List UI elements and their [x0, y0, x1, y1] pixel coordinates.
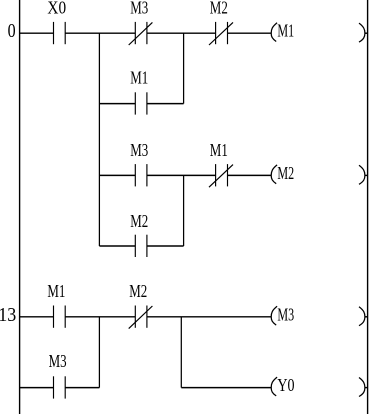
wire branch M2: left junction to contact: [99, 245, 135, 247]
right power rail: [367, 0, 369, 414]
svg-text:M2: M2: [277, 164, 294, 184]
svg-text:X0: X0: [47, 0, 66, 18]
svg-text:M3: M3: [49, 352, 67, 372]
svg-text:M1: M1: [277, 21, 294, 41]
svg-text:M2: M2: [210, 0, 228, 18]
wire rung13: M1 to contact M2: [65, 316, 135, 318]
wire branch M2: contact to right junction: [147, 245, 184, 247]
svg-text:Y0: Y0: [277, 377, 294, 396]
coil Y0 right parenthesis: [359, 378, 365, 397]
coil M1 left parenthesis: [271, 23, 277, 42]
wire branch M3: left rail to contact: [20, 387, 54, 389]
contact M2 (normally closed): [209, 22, 233, 45]
wire coil M1 stub to right rail: [365, 32, 368, 34]
wire rung0: M3 to contact M2: [147, 32, 216, 34]
junction: rung0 branch left vertical: [98, 33, 100, 246]
coil Y0 left parenthesis: [271, 377, 277, 396]
svg-text:13: 13: [0, 304, 16, 326]
wire rung0: X0 to contact M3: [65, 32, 135, 34]
junction: rung13 branch left vertical: [98, 317, 100, 388]
contact X0 (normally open): [54, 22, 66, 44]
contact M3 (rung1) (normally open): [135, 164, 147, 186]
wire rung1: junction to contact M3: [99, 174, 135, 176]
wire coil Y0 stub to right rail: [365, 387, 368, 389]
junction: rung1 parallel block right vertical: [183, 175, 185, 246]
contact M1 (rung13) (normally open): [54, 306, 66, 328]
wire branch M3: contact to junction: [65, 387, 99, 389]
coil M3 left parenthesis: [271, 306, 277, 325]
coil M3 right parenthesis: [359, 307, 365, 326]
contact M1 (rung1) (normally closed): [209, 164, 233, 187]
svg-text:M3: M3: [130, 0, 148, 18]
junction: Y0 branch vertical: [180, 317, 182, 388]
wire branch M1: contact to right junction: [147, 103, 184, 105]
wire coil M2 stub to right rail: [365, 174, 368, 176]
wire rung13: M2 to coil M3: [147, 316, 271, 318]
left power rail: [19, 0, 21, 414]
wire rung0: left rail to X0: [20, 32, 54, 34]
contact M1 (parallel branch) (normally open): [135, 92, 147, 114]
svg-text:M3: M3: [277, 305, 294, 325]
wire coil M3 stub to right rail: [365, 316, 368, 318]
coil M1 right parenthesis: [359, 23, 365, 42]
contact M2 (parallel branch) (normally open): [135, 235, 147, 257]
wire branch M1: left junction to contact: [99, 103, 135, 105]
contact M3 (parallel branch rung13) (normally open): [54, 376, 66, 398]
svg-text:M3: M3: [130, 141, 148, 161]
wire rung13: left rail to M1: [20, 316, 54, 318]
wire rung0: M2 to coil M1: [228, 32, 272, 34]
svg-text:0: 0: [8, 19, 16, 41]
svg-text:M1: M1: [47, 282, 65, 302]
svg-text:M2: M2: [130, 212, 148, 232]
svg-text:M2: M2: [129, 282, 147, 302]
svg-text:M1: M1: [210, 141, 228, 161]
coil M2 left parenthesis: [271, 165, 277, 184]
coil M2 right parenthesis: [359, 165, 365, 184]
contact M2 (rung13) (normally closed): [129, 306, 153, 329]
contact M3 (normally closed): [129, 22, 153, 45]
wire branch Y0: junction to coil Y0: [181, 387, 271, 389]
svg-text:M1: M1: [130, 69, 148, 89]
wire rung1: M3 to contact M1: [147, 174, 216, 176]
junction: rung0 parallel block right vertical: [183, 33, 185, 103]
wire rung1: M1 to coil M2: [228, 174, 272, 176]
